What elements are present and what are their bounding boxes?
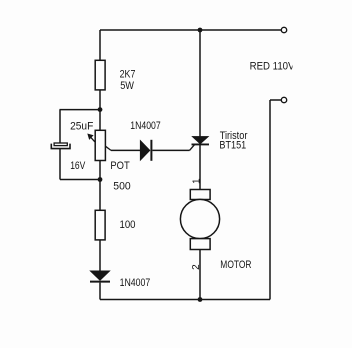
svg-text:1N4007: 1N4007 xyxy=(120,277,151,289)
wire node to capacitor xyxy=(60,110,101,144)
label 1N4007 (D2) xyxy=(120,277,151,289)
wire anode rail (node to thyristor) xyxy=(199,30,201,137)
wire pot wiper to diode D1 xyxy=(111,149,140,151)
label 2K7 5W xyxy=(120,69,136,92)
label MOTOR xyxy=(220,259,251,271)
pin 2 xyxy=(191,264,202,270)
label 500 xyxy=(113,180,130,192)
svg-text:1N4007: 1N4007 xyxy=(130,120,160,132)
svg-text:POT: POT xyxy=(110,160,130,172)
svg-text:5W: 5W xyxy=(120,80,134,92)
diode D1 1N4007 xyxy=(140,140,151,161)
svg-text:MOTOR: MOTOR xyxy=(220,259,251,271)
terminal 2 (lower right) xyxy=(281,97,286,102)
wire capacitor to lower node xyxy=(60,149,100,180)
label 1N4007 (D1) xyxy=(130,120,160,132)
svg-text:1: 1 xyxy=(191,178,202,184)
wire diode D2 to bottom rail xyxy=(99,283,101,300)
label 25uF xyxy=(70,120,93,132)
resistor R2 100 xyxy=(95,210,105,240)
diode D2 1N4007 xyxy=(90,271,110,282)
node B (cap branch bottom) xyxy=(98,177,103,182)
wire thyristor to motor xyxy=(199,144,201,189)
label 100 xyxy=(120,219,136,231)
svg-text:2K7: 2K7 xyxy=(120,69,136,81)
wire resistor to pot xyxy=(99,90,101,130)
thyristor U1 Tiristor BT151 xyxy=(192,136,210,144)
wire left rail upper xyxy=(99,30,101,61)
svg-text:16V: 16V xyxy=(70,160,86,172)
node A (cap branch top) xyxy=(98,107,103,112)
terminal RED 110V xyxy=(281,27,286,32)
svg-text:25uF: 25uF xyxy=(70,120,93,132)
wire bottom rail xyxy=(100,299,270,301)
node D (top rail junction) xyxy=(198,28,203,33)
wire motor to bottom rail xyxy=(199,250,201,300)
resistor R1 2K7 5W xyxy=(95,60,105,90)
wire pot to node B xyxy=(99,161,101,211)
wire resistor 100 to diode D2 xyxy=(99,240,101,271)
svg-text:500: 500 xyxy=(113,180,130,192)
wire diode D1 to gate xyxy=(152,149,189,151)
wire top rail xyxy=(100,29,281,31)
label RED 110V xyxy=(250,60,295,72)
label POT xyxy=(110,160,130,172)
node C (motor bottom junction) xyxy=(198,297,203,302)
potentiometer RV1 POT 500 xyxy=(87,130,111,160)
svg-text:BT151: BT151 xyxy=(219,140,246,152)
capacitor C1 25uF 16V xyxy=(51,143,70,149)
svg-text:RED 110V: RED 110V xyxy=(250,60,295,72)
wire gate diagonal xyxy=(190,144,195,150)
svg-text:100: 100 xyxy=(120,219,136,231)
wire right rail xyxy=(269,100,271,300)
pin 1 xyxy=(191,178,202,184)
label 16V xyxy=(70,160,86,172)
wire terminal 2 to right rail xyxy=(270,99,281,101)
label Tiristor BT151 xyxy=(219,130,247,151)
motor M1 xyxy=(180,190,219,250)
